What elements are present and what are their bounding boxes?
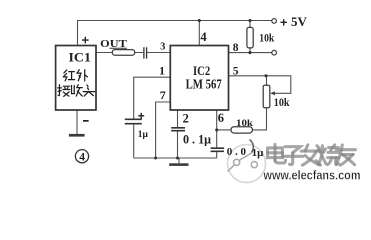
svg-text:IC2: IC2 bbox=[193, 64, 210, 78]
svg-text:6: 6 bbox=[218, 111, 224, 125]
svg-text:0 . 1μ: 0 . 1μ bbox=[183, 133, 211, 147]
svg-text:3: 3 bbox=[160, 42, 165, 53]
svg-text:1μ: 1μ bbox=[138, 130, 149, 140]
svg-text:4: 4 bbox=[200, 30, 207, 44]
svg-text:5V: 5V bbox=[291, 14, 308, 29]
svg-text:7: 7 bbox=[160, 88, 166, 102]
svg-text:www.elecfans.com: www.elecfans.com bbox=[263, 167, 361, 182]
svg-text:5: 5 bbox=[233, 65, 239, 77]
svg-text:0 . 0: 0 . 0 bbox=[227, 146, 247, 158]
svg-text:1μ: 1μ bbox=[252, 147, 265, 159]
svg-text:10k: 10k bbox=[259, 31, 274, 45]
svg-text:IC1: IC1 bbox=[69, 50, 91, 64]
svg-text:2: 2 bbox=[183, 111, 189, 125]
svg-text:1: 1 bbox=[159, 64, 165, 78]
svg-text:10k: 10k bbox=[236, 119, 254, 129]
svg-text:LM 567: LM 567 bbox=[186, 78, 222, 93]
svg-text:8: 8 bbox=[233, 42, 239, 54]
svg-text:10k: 10k bbox=[274, 95, 290, 109]
svg-text:4: 4 bbox=[79, 151, 85, 163]
